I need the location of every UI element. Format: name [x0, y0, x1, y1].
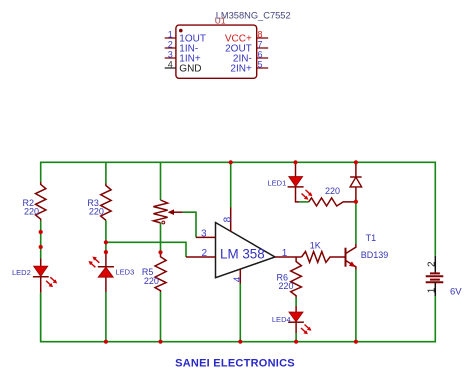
- LED4 light arrow b: [301, 328, 306, 332]
- LED2 light arrow a: [50, 277, 55, 281]
- svg-text:8: 8: [258, 29, 263, 39]
- IC U1 LM358 package symbol: [165, 10, 291, 78]
- svg-text:2: 2: [168, 39, 173, 49]
- battery plate long: [426, 275, 444, 277]
- U1 pin 6 stub: [257, 57, 269, 59]
- wire emitter to bottom rail: [355, 270, 357, 342]
- junction dot R5 at bottom rail: [158, 340, 162, 344]
- pot wiper arrow: [172, 211, 183, 213]
- wire diode to collector: [355, 202, 357, 244]
- LED3 light arrow a: [95, 259, 100, 263]
- op-amp pin 1 line: [275, 256, 302, 258]
- junction dot pin4 at bottom rail: [238, 340, 242, 344]
- diode D1: [350, 162, 362, 201]
- junction dot LED2 wire lower: [39, 245, 43, 249]
- op-amp pin 2 line: [186, 256, 216, 258]
- wire pin8 branch: [230, 162, 232, 207]
- svg-text:LED3: LED3: [116, 268, 135, 277]
- svg-text:2: 2: [427, 261, 438, 267]
- LED4 light arrow a: [305, 325, 310, 329]
- junction dot emitter at bottom rail: [354, 340, 358, 344]
- svg-text:3: 3: [168, 49, 173, 59]
- LED1 light arrow b: [302, 194, 307, 198]
- U1 pin 7 stub: [257, 47, 269, 49]
- svg-text:GND: GND: [179, 63, 201, 74]
- pot terminal circle: [162, 221, 165, 224]
- T1 collector: [346, 244, 356, 254]
- wire pot to R5: [160, 223, 162, 254]
- svg-text:3: 3: [201, 228, 207, 239]
- LED1 light arrow a: [306, 190, 311, 194]
- svg-text:1: 1: [427, 287, 438, 293]
- svg-text:220: 220: [89, 207, 104, 217]
- junction dot diode at top rail: [354, 160, 358, 164]
- svg-text:LED4: LED4: [272, 315, 291, 324]
- svg-text:6: 6: [258, 49, 263, 59]
- op-amp U1.1 LM358: [186, 208, 302, 284]
- IC U1 body: [176, 25, 257, 78]
- junction dot pin8 at top rail: [229, 160, 233, 164]
- svg-text:6V: 6V: [450, 287, 462, 298]
- resistor R6: [277, 257, 302, 298]
- U1 pin 5 stub: [257, 67, 269, 69]
- svg-text:4: 4: [232, 276, 243, 282]
- svg-text:LM358NG_C7552: LM358NG_C7552: [216, 10, 291, 20]
- svg-text:1: 1: [168, 29, 173, 39]
- wire LED2 to bottom rail: [40, 293, 42, 342]
- U1 pin 2 stub: [165, 47, 176, 49]
- svg-text:2: 2: [202, 248, 208, 259]
- LED3 light arrow b: [91, 263, 96, 267]
- svg-text:SANEI ELECTRONICS: SANEI ELECTRONICS: [175, 357, 295, 369]
- wire pot branch top: [160, 162, 162, 200]
- wire R3 branch mid: [105, 220, 107, 252]
- svg-text:BD139: BD139: [361, 250, 389, 260]
- svg-text:LM 358: LM 358: [220, 246, 265, 261]
- svg-text:2IN+: 2IN+: [230, 63, 252, 74]
- wire left rail mid (R2 to LED2): [40, 221, 42, 259]
- battery plate short: [430, 279, 440, 281]
- svg-text:220: 220: [325, 186, 340, 196]
- potentiometer: [153, 200, 182, 224]
- LED1: [268, 162, 313, 202]
- junction dot LED3 top: [104, 250, 108, 254]
- LED4: [272, 306, 312, 334]
- junction dot R3/inverting wire: [104, 240, 108, 244]
- svg-text:8: 8: [222, 216, 233, 222]
- svg-text:LED1: LED1: [268, 178, 287, 187]
- T1 base bar: [345, 248, 347, 267]
- wire LED1 cathode to 220: [299, 201, 309, 203]
- U1 pin 4 stub: [165, 67, 176, 69]
- wire inverting input: [106, 242, 186, 257]
- junction dot LED3 at bottom rail: [104, 340, 108, 344]
- wire R6 to LED4: [295, 298, 297, 307]
- U1 pin-1 marker dot: [179, 29, 183, 33]
- svg-text:LED2: LED2: [12, 268, 31, 277]
- battery bottom pin: [434, 282, 436, 296]
- junction dot LED2 wire upper: [39, 230, 43, 234]
- junction dot LED1 at top rail: [293, 160, 297, 164]
- battery plate short top: [430, 272, 440, 274]
- svg-text:1K: 1K: [310, 241, 321, 251]
- U1 pin 1 stub: [165, 37, 176, 39]
- wire top rail: [41, 162, 436, 256]
- op-amp pin 8 line: [230, 208, 232, 232]
- battery BT1 6V: [426, 256, 463, 298]
- svg-text:220: 220: [24, 207, 39, 217]
- svg-text:220: 220: [144, 276, 159, 286]
- transistor T1 BD139: [346, 233, 389, 270]
- wire R5 branch bottom: [160, 292, 162, 342]
- wire bottom rail: [41, 293, 436, 342]
- svg-text:U1: U1: [215, 16, 226, 26]
- svg-text:7: 7: [258, 39, 263, 49]
- battery top pin: [434, 256, 436, 274]
- junction dot R5 top: [158, 250, 162, 254]
- svg-text:1: 1: [282, 248, 288, 259]
- resistor 1K: [302, 241, 346, 263]
- junction dot LED4 at bottom rail: [294, 340, 298, 344]
- svg-text:4: 4: [168, 59, 173, 69]
- op-amp pin 3 line: [196, 236, 216, 238]
- resistor R3: [87, 184, 111, 221]
- op-amp triangle: [216, 223, 276, 278]
- T1 emitter: [346, 260, 356, 269]
- junction dot diode/220/collector: [354, 200, 358, 204]
- resistor R2: [23, 182, 46, 221]
- main circuit wires: [41, 162, 436, 341]
- wire LED4 to bottom rail: [295, 333, 297, 342]
- LED2: [12, 259, 57, 293]
- resistor 220 (LED1 series): [309, 186, 356, 206]
- battery plate long bottom: [426, 281, 444, 283]
- T1 emitter arrowhead: [349, 261, 356, 267]
- op-amp pin 4 line: [239, 269, 241, 283]
- wire pin4 branch: [239, 284, 241, 342]
- U1 pin 8 stub: [257, 37, 269, 39]
- resistor R5: [142, 254, 166, 293]
- svg-text:T1: T1: [366, 233, 377, 243]
- svg-text:5: 5: [258, 59, 263, 69]
- wire wiper to pin3: [183, 212, 196, 237]
- U1 pin 3 stub: [165, 57, 176, 59]
- LED2 light arrow b: [46, 281, 51, 285]
- wire R3 branch top: [105, 162, 107, 183]
- svg-text:220: 220: [279, 281, 294, 291]
- LED3 (inverted): [89, 252, 135, 292]
- wire LED3 branch bottom: [105, 292, 107, 342]
